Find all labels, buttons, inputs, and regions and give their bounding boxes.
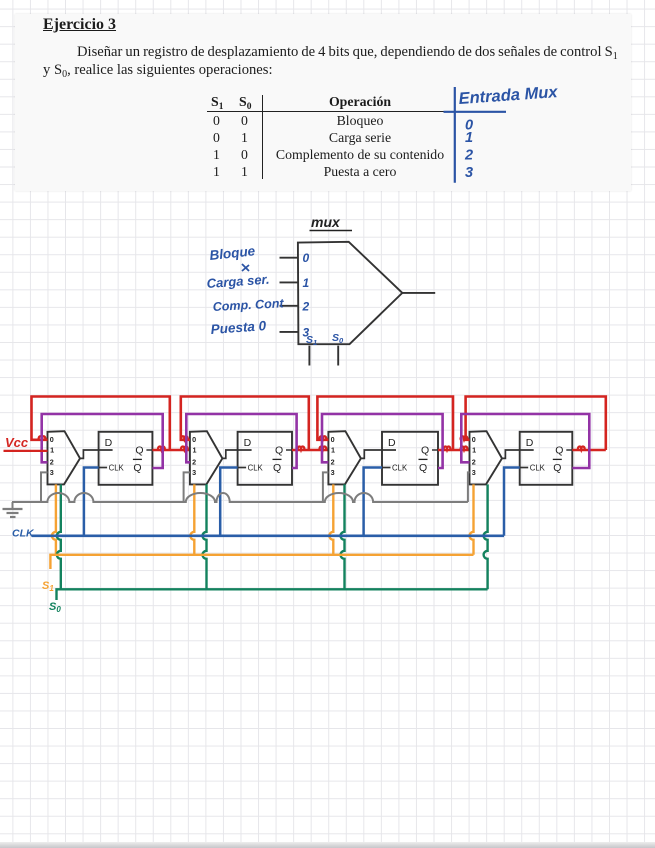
wire red squiggle at M3 input 1 xyxy=(320,447,327,450)
wire red squiggle at M4 input 0 xyxy=(461,436,468,439)
wire purple Qbar1 feedback loop to M1 input 2 xyxy=(42,414,163,468)
wire U2 CLK stub xyxy=(237,467,246,469)
svg-text:0: 0 xyxy=(331,435,335,444)
wire purple Qbar4 feedback loop to M4 input 2 xyxy=(461,414,589,468)
svg-text:2: 2 xyxy=(50,458,54,467)
wire blue CLK rail xyxy=(32,534,504,537)
wire green S0 drop stage 4 xyxy=(484,484,488,589)
svg-text:D: D xyxy=(388,437,396,449)
flip-flop U3 labels D CLK Q Qbar xyxy=(388,437,429,474)
D flip-flop U4 xyxy=(520,432,573,485)
svg-text:Puesta 0: Puesta 0 xyxy=(210,318,267,337)
svg-text:Q: Q xyxy=(555,445,563,457)
svg-text:1: 1 xyxy=(50,446,54,455)
wire mux M2 output to U2 D xyxy=(222,450,251,458)
svg-text:CLK: CLK xyxy=(392,464,408,473)
wire U1 CLK stub xyxy=(98,467,107,469)
svg-text:D: D xyxy=(105,437,113,449)
wire U3 Q stub xyxy=(432,449,438,451)
svg-text:0: 0 xyxy=(472,435,476,444)
wire gray M2 input 3 to ground rail xyxy=(184,472,190,502)
wire red squiggle at M2 input 0 xyxy=(181,436,188,439)
annotation digits 0-3 (blue handwriting) xyxy=(464,118,473,182)
wire gray ground rail xyxy=(12,493,468,502)
wire gray M1 input 3 to ground rail xyxy=(41,472,48,502)
wire blue CLK drop stage 2 xyxy=(220,468,237,536)
label S1 S0 under mux (blue handwriting) xyxy=(306,332,344,347)
wire green S0 drop stage 3 xyxy=(341,484,345,589)
svg-text:1: 1 xyxy=(331,446,335,455)
svg-text:2: 2 xyxy=(464,148,473,164)
mux symbol (large) xyxy=(298,242,402,344)
wire red squiggle at Q1 xyxy=(158,447,165,450)
svg-text:3: 3 xyxy=(465,165,473,181)
svg-text:3: 3 xyxy=(50,468,54,477)
wire mux M3 output to U3 D xyxy=(361,450,396,458)
svg-text:3: 3 xyxy=(192,468,196,477)
svg-text:0: 0 xyxy=(192,435,196,444)
wire blue CLK drop stage 3 xyxy=(364,468,382,536)
svg-text:Q: Q xyxy=(553,462,561,474)
ground symbol xyxy=(3,502,23,517)
wire U4 CLK stub xyxy=(519,467,528,469)
svg-text:CLK: CLK xyxy=(248,464,264,473)
D flip-flop U2 xyxy=(238,432,292,485)
wire mux output xyxy=(402,292,435,294)
title Ejercicio 3 xyxy=(43,16,116,34)
document sheet xyxy=(15,14,631,191)
svg-text:S1: S1 xyxy=(306,334,317,347)
wire orange S1 drop stage 1 xyxy=(52,484,56,554)
svg-text:2: 2 xyxy=(472,458,476,467)
wire U3 CLK stub xyxy=(382,467,391,469)
mux M3 pin labels 0 1 2 3 xyxy=(331,435,335,477)
wire orange S1 drop stage 2 xyxy=(190,484,194,554)
D flip-flop U3 xyxy=(382,432,438,485)
wire purple Qbar3 feedback loop to M3 input 2 xyxy=(322,414,443,468)
annotation stray mark under Bloque (blue) xyxy=(242,264,249,271)
mux input numbers 0-3 (blue handwriting) xyxy=(302,251,310,339)
wire red Vcc to M1 input 1 xyxy=(4,450,48,452)
wire U4 Q stub xyxy=(566,449,572,451)
wire red Q1 feedback loop to M1 input 0 xyxy=(32,397,170,451)
svg-text:CLK: CLK xyxy=(109,464,125,473)
wire orange S1 drop stage 3 xyxy=(329,484,333,554)
svg-text:D: D xyxy=(526,437,534,449)
svg-text:Q: Q xyxy=(419,462,427,474)
svg-text:Q: Q xyxy=(133,462,141,474)
wire mux M4 output to U4 D xyxy=(502,450,534,458)
svg-text:CLK: CLK xyxy=(12,528,35,540)
wire red squiggle at M3 input 0 xyxy=(320,436,327,439)
flip-flop U1 labels D CLK Q Qbar xyxy=(105,437,144,474)
wire red squiggle at Q2 xyxy=(298,447,305,450)
wire red Q2 feedback loop to M2 input 0 xyxy=(181,397,309,451)
wire gray M4 input 3 to ground rail xyxy=(468,472,470,502)
wire orange S1 drop stage 4 xyxy=(470,484,474,554)
svg-text:S0: S0 xyxy=(332,332,344,345)
svg-text:3: 3 xyxy=(472,468,476,477)
wire orange S1 rail xyxy=(50,555,473,569)
mux M1 pin labels 0 1 2 3 xyxy=(50,435,54,477)
wire red Q4 output xyxy=(572,449,606,452)
svg-text:Comp. Cont: Comp. Cont xyxy=(212,296,284,314)
table header rule xyxy=(207,111,454,112)
wire green S0 rail xyxy=(57,589,488,600)
wire red squiggle at M2 input 1 xyxy=(181,447,188,450)
annotation column line (blue) xyxy=(444,87,507,183)
flip-flop U4 labels D CLK Q Qbar xyxy=(526,437,564,474)
paragraph xyxy=(77,44,622,62)
svg-text:Q: Q xyxy=(421,445,429,457)
table column rule xyxy=(262,95,263,179)
svg-text:1: 1 xyxy=(193,446,197,455)
wire red squiggle at M1 input 0 xyxy=(39,436,46,439)
svg-text:CLK: CLK xyxy=(530,464,546,473)
svg-text:Q: Q xyxy=(275,445,283,457)
wire red Q3 output xyxy=(438,449,470,452)
wire green S0 drop stage 2 xyxy=(203,484,207,589)
svg-text:Q: Q xyxy=(135,445,143,457)
wire red Q1 output xyxy=(152,449,190,452)
svg-text:1: 1 xyxy=(303,276,310,290)
wire purple Qbar2 feedback loop to M2 input 2 xyxy=(186,414,296,468)
svg-text:S0: S0 xyxy=(49,601,61,614)
wire red Q2 output xyxy=(292,449,328,452)
mux input ticks xyxy=(280,258,299,332)
svg-text:mux: mux xyxy=(311,214,341,230)
svg-text:Bloque: Bloque xyxy=(209,243,257,263)
mux M4 pin labels 0 1 2 3 xyxy=(472,435,476,477)
svg-text:1: 1 xyxy=(465,130,473,146)
mux M1 xyxy=(48,431,81,484)
mux M3 xyxy=(328,431,361,484)
wire mux M1 output to U1 D xyxy=(80,450,113,458)
svg-text:0: 0 xyxy=(50,435,54,444)
svg-text:2: 2 xyxy=(192,458,196,467)
wire blue CLK drop stage 1 xyxy=(84,468,99,536)
mux select pins S1 S0 xyxy=(309,346,338,366)
wire red squiggle at Q4 xyxy=(578,447,585,450)
bottom paper edge xyxy=(0,842,655,848)
svg-text:Q: Q xyxy=(273,462,281,474)
mux M2 xyxy=(190,431,223,484)
svg-text:1: 1 xyxy=(472,446,476,455)
wire blue CLK drop stage 4 xyxy=(504,468,520,536)
wire red Q3 feedback loop to M3 input 0 xyxy=(317,397,453,451)
D flip-flop U1 xyxy=(99,432,153,485)
svg-text:D: D xyxy=(244,437,252,449)
wire red Q4 feedback loop to M4 input 0 xyxy=(466,397,606,451)
flip-flop U2 labels D CLK Q Qbar xyxy=(244,437,284,474)
svg-text:S1: S1 xyxy=(42,580,54,593)
svg-text:3: 3 xyxy=(331,468,335,477)
svg-text:2: 2 xyxy=(302,299,310,313)
wire U2 Q stub xyxy=(286,449,292,451)
wire red squiggle at M4 input 1 xyxy=(461,447,468,450)
svg-text:Vcc: Vcc xyxy=(5,435,29,450)
wire red squiggle at Q3 xyxy=(444,447,451,450)
svg-text:Carga ser.: Carga ser. xyxy=(206,272,270,291)
svg-text:Entrada Mux: Entrada Mux xyxy=(458,83,559,108)
table xyxy=(206,93,208,95)
wire gray M3 input 3 to ground rail xyxy=(323,472,329,502)
wire green S0 drop stage 1 xyxy=(57,484,61,589)
svg-text:0: 0 xyxy=(303,251,310,265)
mux M4 xyxy=(470,431,503,484)
wire U1 Q stub xyxy=(146,449,152,451)
label mux title (handwriting) xyxy=(310,214,353,231)
svg-text:2: 2 xyxy=(331,458,335,467)
mux M2 pin labels 0 1 2 3 xyxy=(192,435,196,477)
